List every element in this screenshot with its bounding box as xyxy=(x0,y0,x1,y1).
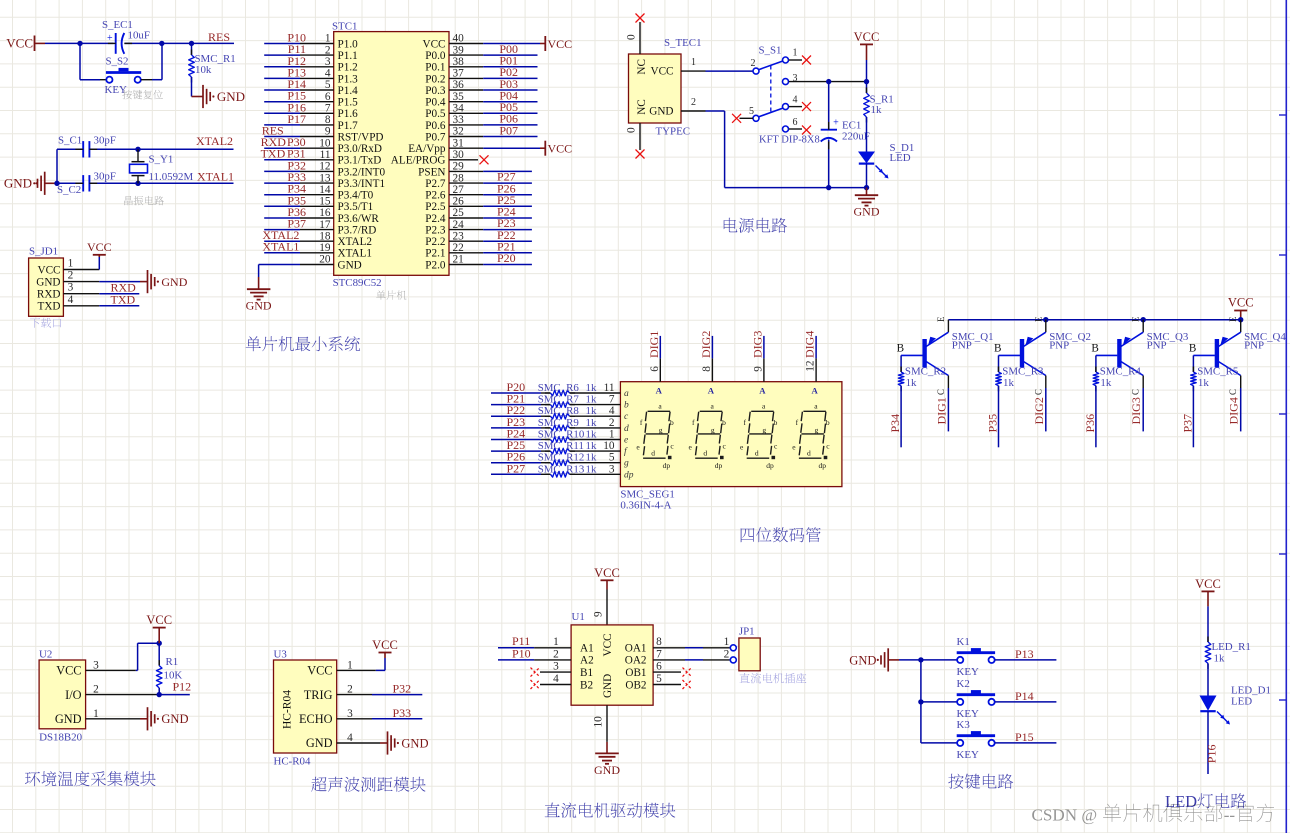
svg-text:P1.2: P1.2 xyxy=(338,62,358,74)
svg-text:VCC: VCC xyxy=(37,264,60,276)
svg-text:1k: 1k xyxy=(586,394,597,406)
svg-text:P1.3: P1.3 xyxy=(338,73,359,85)
svg-text:K1: K1 xyxy=(957,636,970,648)
svg-text:1k: 1k xyxy=(1198,377,1209,389)
svg-text:P27: P27 xyxy=(507,461,526,475)
svg-text:3: 3 xyxy=(93,659,99,671)
svg-text:B: B xyxy=(994,343,1001,355)
svg-text:1k: 1k xyxy=(1003,377,1014,389)
svg-text:U2: U2 xyxy=(39,649,52,661)
svg-text:P36: P36 xyxy=(1083,414,1097,433)
svg-text:P15: P15 xyxy=(1015,730,1034,744)
svg-text:TXD: TXD xyxy=(261,147,286,161)
svg-text:SMC_R7: SMC_R7 xyxy=(538,394,580,406)
svg-text:g: g xyxy=(815,426,819,435)
svg-text:1k: 1k xyxy=(1100,377,1111,389)
svg-text:TXD: TXD xyxy=(111,292,136,306)
svg-text:1k: 1k xyxy=(906,377,917,389)
svg-text:1: 1 xyxy=(609,428,615,440)
svg-text:1k: 1k xyxy=(586,428,597,440)
svg-text:S_C1: S_C1 xyxy=(58,135,82,147)
svg-text:3: 3 xyxy=(793,73,798,84)
svg-text:VCC: VCC xyxy=(372,638,398,652)
svg-text:A: A xyxy=(656,386,663,396)
svg-text:B: B xyxy=(897,343,904,355)
svg-text:GND: GND xyxy=(55,712,82,726)
svg-text:10k: 10k xyxy=(195,64,212,76)
svg-text:GND: GND xyxy=(602,674,614,698)
svg-text:P1.5: P1.5 xyxy=(338,97,359,109)
svg-text:A1: A1 xyxy=(580,643,594,655)
svg-text:XTAL2: XTAL2 xyxy=(196,134,233,148)
svg-text:P3.1/TxD: P3.1/TxD xyxy=(338,155,382,167)
svg-text:S_Y1: S_Y1 xyxy=(149,154,174,166)
svg-text:P13: P13 xyxy=(1015,647,1034,661)
svg-text:P0.7: P0.7 xyxy=(425,131,446,143)
svg-text:P3.7/RD: P3.7/RD xyxy=(338,224,377,236)
svg-text:7: 7 xyxy=(656,648,662,660)
svg-text:P33: P33 xyxy=(393,706,412,720)
svg-text:P3.2/INT0: P3.2/INT0 xyxy=(338,166,386,178)
svg-text:1: 1 xyxy=(724,636,730,648)
svg-text:SMC_R5: SMC_R5 xyxy=(1197,365,1239,377)
svg-text:C: C xyxy=(1228,389,1238,395)
svg-text:KEY: KEY xyxy=(957,666,980,678)
svg-text:1: 1 xyxy=(553,636,559,648)
svg-text:4: 4 xyxy=(68,294,74,306)
svg-text:S_JD1: S_JD1 xyxy=(29,246,58,258)
svg-text:GND: GND xyxy=(217,89,245,104)
svg-text:10uF: 10uF xyxy=(128,30,150,42)
svg-text:5: 5 xyxy=(609,452,615,464)
svg-text:GND: GND xyxy=(594,763,620,777)
svg-text:P0.3: P0.3 xyxy=(425,85,446,97)
svg-text:b: b xyxy=(774,418,778,427)
svg-text:DIG1: DIG1 xyxy=(934,397,948,424)
svg-text:2: 2 xyxy=(68,270,74,282)
svg-text:ECHO: ECHO xyxy=(299,712,333,726)
svg-text:2: 2 xyxy=(691,97,696,108)
svg-text:P3.6/WR: P3.6/WR xyxy=(338,213,380,225)
svg-text:I/O: I/O xyxy=(65,688,82,702)
svg-text:10: 10 xyxy=(603,440,615,452)
svg-text:3: 3 xyxy=(347,708,353,720)
svg-text:EA/Vpp: EA/Vpp xyxy=(408,143,446,155)
svg-text:KEY: KEY xyxy=(105,84,128,96)
svg-text:P37: P37 xyxy=(1180,414,1194,433)
svg-text:VCC: VCC xyxy=(422,38,445,50)
svg-text:P2.0: P2.0 xyxy=(425,259,446,271)
svg-text:A: A xyxy=(708,386,715,396)
svg-text:DIG1: DIG1 xyxy=(647,331,661,358)
svg-text:P3.5/T1: P3.5/T1 xyxy=(338,201,374,213)
svg-text:GND: GND xyxy=(161,275,187,289)
svg-text:S_S2: S_S2 xyxy=(106,56,129,68)
svg-text:a: a xyxy=(624,389,629,399)
svg-text:TYPEC: TYPEC xyxy=(656,126,691,138)
svg-text:g: g xyxy=(624,459,629,469)
svg-text:E: E xyxy=(1131,316,1141,322)
svg-text:XTAL1: XTAL1 xyxy=(338,248,373,260)
svg-text:VCC: VCC xyxy=(87,240,112,254)
svg-text:PNP: PNP xyxy=(1244,340,1264,352)
svg-text:P3.0/RxD: P3.0/RxD xyxy=(338,143,382,155)
svg-text:GND: GND xyxy=(246,299,272,313)
svg-text:PNP: PNP xyxy=(1049,340,1069,352)
svg-text:d: d xyxy=(624,424,629,434)
svg-text:P2.6: P2.6 xyxy=(425,190,446,202)
svg-text:30pF: 30pF xyxy=(94,171,116,183)
svg-text:P34: P34 xyxy=(888,414,902,433)
svg-text:1k: 1k xyxy=(586,440,597,452)
svg-text:SMC_R11: SMC_R11 xyxy=(538,440,584,452)
svg-text:A: A xyxy=(811,386,818,396)
svg-text:VCC: VCC xyxy=(602,633,614,656)
svg-text:C: C xyxy=(1033,389,1043,395)
svg-text:STC89C52: STC89C52 xyxy=(333,277,382,289)
svg-text:GND: GND xyxy=(161,712,188,726)
svg-text:d: d xyxy=(651,448,655,457)
svg-text:C: C xyxy=(1131,389,1141,395)
svg-text:SMC_R2: SMC_R2 xyxy=(905,365,946,377)
svg-text:12: 12 xyxy=(805,360,817,372)
svg-text:VCC: VCC xyxy=(854,30,880,44)
svg-text:2: 2 xyxy=(347,684,353,696)
svg-text:P2.5: P2.5 xyxy=(425,201,446,213)
svg-text:B: B xyxy=(1091,343,1098,355)
svg-text:2: 2 xyxy=(93,684,99,696)
svg-text:4: 4 xyxy=(347,732,353,744)
svg-text:SMC_R3: SMC_R3 xyxy=(1002,365,1044,377)
svg-text:2: 2 xyxy=(553,648,559,660)
svg-text:GND: GND xyxy=(36,276,60,288)
svg-text:LED_R1: LED_R1 xyxy=(1212,641,1251,653)
svg-text:+: + xyxy=(107,33,113,44)
svg-text:P16: P16 xyxy=(1204,745,1218,764)
svg-text:6: 6 xyxy=(793,117,798,128)
svg-text:10: 10 xyxy=(593,716,605,728)
svg-text:0: 0 xyxy=(626,127,638,133)
svg-text:XTAL2: XTAL2 xyxy=(338,236,373,248)
svg-text:XTAL1: XTAL1 xyxy=(197,170,234,184)
svg-text:0.36IN-4-A: 0.36IN-4-A xyxy=(620,500,671,512)
svg-text:SMC_R9: SMC_R9 xyxy=(538,417,579,429)
svg-text:220uF: 220uF xyxy=(842,131,870,143)
svg-text:0: 0 xyxy=(626,34,638,40)
svg-text:GND: GND xyxy=(649,106,673,118)
svg-text:--: -- xyxy=(1224,806,1236,825)
svg-text:b: b xyxy=(722,418,726,427)
svg-text:K2: K2 xyxy=(957,678,970,690)
svg-text:GND: GND xyxy=(4,176,32,191)
svg-text:11.0592M: 11.0592M xyxy=(149,171,194,183)
svg-text:P0.6: P0.6 xyxy=(425,120,446,132)
svg-text:KFT DIP-8X8: KFT DIP-8X8 xyxy=(759,135,820,146)
svg-text:LED: LED xyxy=(890,152,911,164)
svg-text:S_TEC1: S_TEC1 xyxy=(664,37,702,49)
svg-text:DS18B20: DS18B20 xyxy=(39,732,83,744)
svg-text:VCC: VCC xyxy=(1228,296,1254,310)
svg-text:SMC_R13: SMC_R13 xyxy=(538,463,585,475)
svg-text:P2.3: P2.3 xyxy=(425,224,446,236)
svg-text:30pF: 30pF xyxy=(94,135,116,147)
svg-text:KEY: KEY xyxy=(957,749,980,761)
svg-text:VCC: VCC xyxy=(307,664,332,678)
svg-text:LED: LED xyxy=(1165,792,1197,811)
svg-text:ALE/PROG: ALE/PROG xyxy=(391,155,446,167)
svg-text:dp: dp xyxy=(624,470,634,480)
svg-text:g: g xyxy=(711,426,715,435)
svg-text:2: 2 xyxy=(724,648,730,660)
svg-text:P14: P14 xyxy=(1015,689,1034,703)
svg-text:SMC_R4: SMC_R4 xyxy=(1100,365,1142,377)
svg-text:VCC: VCC xyxy=(6,36,33,51)
svg-text:P2.1: P2.1 xyxy=(425,248,445,260)
svg-text:GND: GND xyxy=(401,736,428,750)
svg-text:1: 1 xyxy=(93,708,99,720)
svg-text:U1: U1 xyxy=(572,611,585,623)
svg-text:2: 2 xyxy=(751,58,756,69)
svg-text:7: 7 xyxy=(609,394,615,406)
svg-text:P0.2: P0.2 xyxy=(425,73,445,85)
svg-text:HC-R04: HC-R04 xyxy=(274,756,311,768)
svg-text:3: 3 xyxy=(68,282,74,294)
svg-text:TRIG: TRIG xyxy=(304,688,333,702)
svg-text:GND: GND xyxy=(854,205,880,219)
svg-text:dp: dp xyxy=(663,461,671,470)
svg-text:PNP: PNP xyxy=(952,340,972,352)
svg-text:3: 3 xyxy=(553,661,559,673)
svg-text:1: 1 xyxy=(793,48,798,59)
svg-text:6: 6 xyxy=(649,366,661,372)
svg-text:dp: dp xyxy=(818,461,826,470)
svg-text:A: A xyxy=(759,386,766,396)
svg-text:S_S1: S_S1 xyxy=(759,45,782,57)
svg-text:P1.1: P1.1 xyxy=(338,50,358,62)
svg-text:g: g xyxy=(762,426,766,435)
svg-text:RXD: RXD xyxy=(37,289,61,301)
svg-text:DIG3: DIG3 xyxy=(750,331,764,358)
svg-text:5: 5 xyxy=(656,673,662,685)
svg-text:U3: U3 xyxy=(274,649,288,661)
svg-text:d: d xyxy=(755,448,759,457)
svg-text:P2.7: P2.7 xyxy=(425,178,446,190)
svg-text:HC-R04: HC-R04 xyxy=(282,690,294,729)
svg-text:DIG2: DIG2 xyxy=(1032,397,1046,424)
svg-text:+: + xyxy=(833,118,839,129)
svg-text:GND: GND xyxy=(849,653,876,667)
svg-text:1k: 1k xyxy=(586,382,597,394)
svg-text:b: b xyxy=(826,418,830,427)
svg-text:SMC_R12: SMC_R12 xyxy=(538,452,585,464)
svg-text:S_C2: S_C2 xyxy=(57,184,81,196)
svg-text:SMC_R8: SMC_R8 xyxy=(538,405,580,417)
svg-text:VCC: VCC xyxy=(56,664,81,678)
svg-text:DIG3: DIG3 xyxy=(1129,397,1143,424)
svg-text:GND: GND xyxy=(338,259,362,271)
svg-text:5: 5 xyxy=(749,106,754,117)
svg-text:2: 2 xyxy=(609,417,615,429)
svg-text:d: d xyxy=(703,448,707,457)
svg-text:RST/VPD: RST/VPD xyxy=(338,131,384,143)
svg-text:TXD: TXD xyxy=(38,301,61,313)
svg-text:NC: NC xyxy=(636,59,648,75)
svg-text:dp: dp xyxy=(766,461,774,470)
svg-text:3: 3 xyxy=(609,463,615,475)
svg-text:VCC: VCC xyxy=(1195,577,1221,591)
svg-text:GND: GND xyxy=(306,736,333,750)
svg-text:OA1: OA1 xyxy=(625,643,647,655)
svg-text:E: E xyxy=(1228,316,1238,322)
svg-text:8: 8 xyxy=(656,636,662,648)
svg-text:XTAL1: XTAL1 xyxy=(262,240,299,254)
svg-text:P2.2: P2.2 xyxy=(425,236,445,248)
svg-text:1k: 1k xyxy=(1214,653,1225,665)
svg-text:P0.5: P0.5 xyxy=(425,108,446,120)
svg-text:DIG4: DIG4 xyxy=(1227,397,1241,424)
svg-text:P3.3/INT1: P3.3/INT1 xyxy=(338,178,386,190)
svg-text:OA2: OA2 xyxy=(625,655,647,667)
svg-text:VCC: VCC xyxy=(146,613,172,627)
svg-text:P1.4: P1.4 xyxy=(338,85,359,97)
svg-text:RES: RES xyxy=(208,30,230,44)
svg-text:CSDN @: CSDN @ xyxy=(1032,806,1098,825)
svg-text:1k: 1k xyxy=(586,452,597,464)
svg-text:E: E xyxy=(1033,316,1043,322)
svg-text:P10: P10 xyxy=(512,646,531,660)
svg-text:PNP: PNP xyxy=(1147,340,1167,352)
svg-text:4: 4 xyxy=(609,405,615,417)
svg-text:1k: 1k xyxy=(871,104,882,116)
svg-text:B: B xyxy=(1189,343,1196,355)
svg-text:R1: R1 xyxy=(166,656,179,668)
svg-text:1: 1 xyxy=(691,57,696,68)
svg-text:P32: P32 xyxy=(393,682,412,696)
svg-text:K3: K3 xyxy=(957,719,971,731)
svg-text:B1: B1 xyxy=(580,667,593,679)
svg-text:P0.0: P0.0 xyxy=(425,50,446,62)
svg-text:11: 11 xyxy=(604,382,615,394)
svg-text:P3.4/T0: P3.4/T0 xyxy=(338,190,374,202)
svg-text:SMC_R10: SMC_R10 xyxy=(538,428,585,440)
svg-text:VCC: VCC xyxy=(650,66,673,78)
svg-text:P0.1: P0.1 xyxy=(425,62,445,74)
svg-text:P1.0: P1.0 xyxy=(338,38,359,50)
svg-text:P17: P17 xyxy=(287,112,306,126)
svg-text:B2: B2 xyxy=(580,679,593,691)
svg-text:A2: A2 xyxy=(580,655,594,667)
svg-text:4: 4 xyxy=(793,95,798,106)
svg-text:d: d xyxy=(807,448,811,457)
svg-text:P20: P20 xyxy=(497,251,516,265)
svg-text:9: 9 xyxy=(752,366,764,372)
svg-text:P2.4: P2.4 xyxy=(425,213,446,225)
svg-text:1: 1 xyxy=(68,258,74,270)
svg-text:NC: NC xyxy=(636,99,648,115)
svg-text:E: E xyxy=(936,316,946,322)
svg-text:9: 9 xyxy=(593,611,605,617)
svg-text:P1.7: P1.7 xyxy=(338,120,359,132)
svg-text:OB2: OB2 xyxy=(625,679,646,691)
svg-text:JP1: JP1 xyxy=(739,626,755,638)
svg-text:g: g xyxy=(659,426,663,435)
svg-text:VCC: VCC xyxy=(548,37,573,51)
svg-text:STC1: STC1 xyxy=(332,21,357,33)
svg-text:VCC: VCC xyxy=(594,566,620,580)
svg-text:P12: P12 xyxy=(173,679,192,693)
svg-text:6: 6 xyxy=(656,661,662,673)
svg-text:1k: 1k xyxy=(586,463,597,475)
svg-text:e: e xyxy=(624,435,628,445)
svg-text:OB1: OB1 xyxy=(625,667,646,679)
svg-text:1: 1 xyxy=(347,659,353,671)
svg-text:SMC_R6: SMC_R6 xyxy=(538,382,580,394)
svg-text:b: b xyxy=(624,401,629,411)
svg-text:b: b xyxy=(670,418,674,427)
svg-text:C: C xyxy=(936,389,946,395)
svg-text:P35: P35 xyxy=(986,414,1000,433)
svg-text:8: 8 xyxy=(701,366,713,372)
svg-text:P1.6: P1.6 xyxy=(338,108,359,120)
svg-text:P07: P07 xyxy=(499,123,518,137)
svg-text:PSEN: PSEN xyxy=(418,166,445,178)
svg-text:DIG4: DIG4 xyxy=(803,331,817,358)
svg-text:P0.4: P0.4 xyxy=(425,97,446,109)
svg-text:VCC: VCC xyxy=(548,141,573,155)
svg-text:DIG2: DIG2 xyxy=(699,331,713,358)
svg-text:dp: dp xyxy=(715,461,723,470)
svg-text:1k: 1k xyxy=(586,417,597,429)
svg-text:1k: 1k xyxy=(586,405,597,417)
svg-text:4: 4 xyxy=(553,673,559,685)
svg-text:LED: LED xyxy=(1231,695,1252,707)
